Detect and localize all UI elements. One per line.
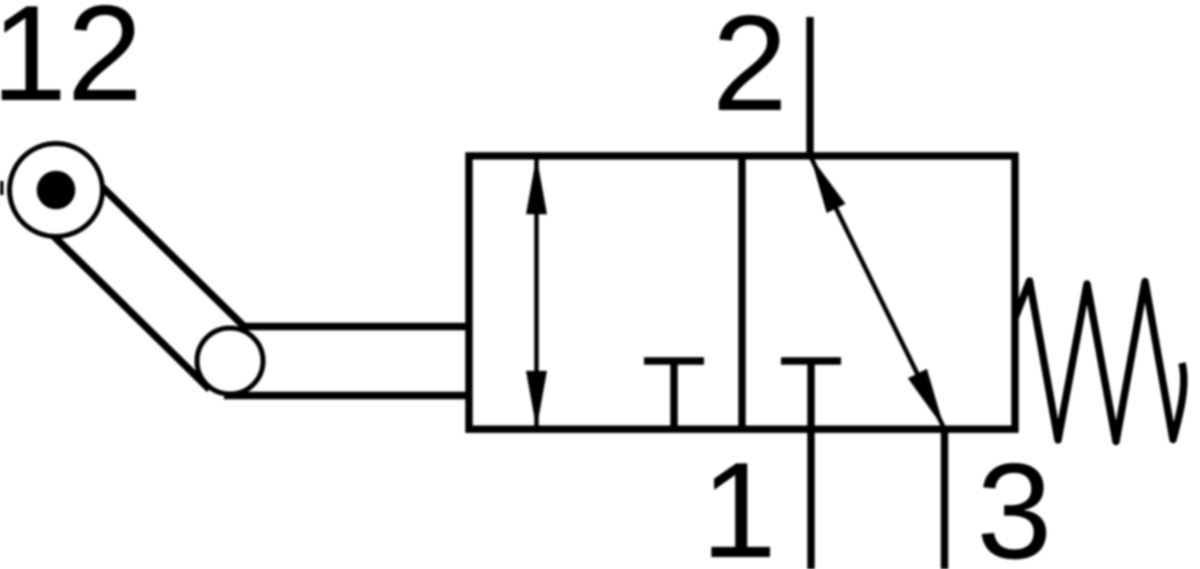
lever pivot circle <box>10 144 103 237</box>
blocked port T (left box) stem <box>670 361 677 429</box>
double arrow upper head <box>526 156 547 214</box>
double arrow shaft (left box) <box>534 157 539 428</box>
flow arrow upper head <box>811 157 846 214</box>
pivot dot <box>37 171 76 210</box>
svg-text:12: 12 <box>0 0 143 129</box>
svg-text:2: 2 <box>712 0 788 139</box>
lever arm lower horizontal <box>224 392 469 399</box>
clipped mark at left image edge <box>0 181 4 195</box>
valve body outline <box>469 156 1015 429</box>
svg-text:1: 1 <box>701 434 777 569</box>
double arrow lower head <box>526 371 547 429</box>
roller circle <box>197 328 263 394</box>
flow arrow shaft (right box) <box>811 157 945 430</box>
flow arrow lower head <box>908 369 945 429</box>
port 3 line <box>941 429 948 569</box>
blocked port T (left box) bar <box>644 357 704 364</box>
valve position divider <box>738 156 745 429</box>
port 2 line <box>806 17 813 156</box>
lever arm upper edge <box>80 165 469 326</box>
blocked port T (right box) bar <box>781 357 841 364</box>
port 1 line with T stem <box>807 361 814 569</box>
svg-text:3: 3 <box>977 435 1053 569</box>
lever arm lower edge <box>32 215 210 390</box>
return spring <box>1015 281 1184 442</box>
